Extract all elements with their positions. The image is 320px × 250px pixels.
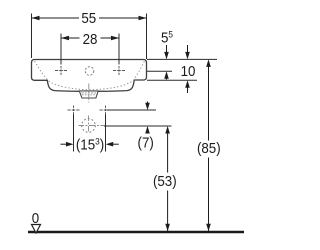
svg-text:(85): (85) [197, 139, 221, 156]
svg-text:28: 28 [83, 30, 98, 47]
svg-text:(153): (153) [76, 136, 104, 153]
svg-text:(7): (7) [138, 134, 154, 151]
svg-text:10: 10 [181, 62, 196, 79]
svg-text:55: 55 [81, 9, 96, 26]
svg-text:(53): (53) [153, 172, 177, 189]
svg-text:0: 0 [32, 209, 40, 226]
